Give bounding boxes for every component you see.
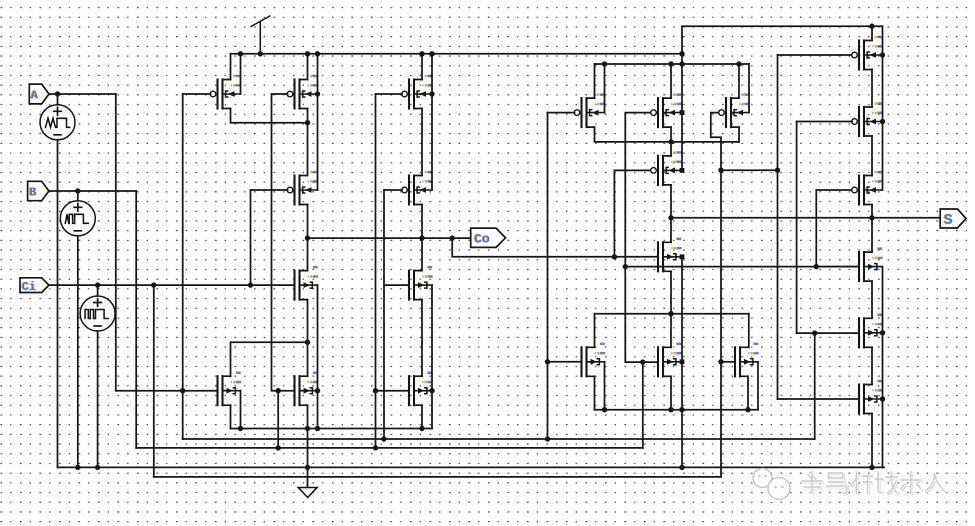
wire B down bbox=[135, 191, 137, 448]
junction bbox=[640, 359, 645, 364]
wire B to R3 R4 bbox=[625, 266, 859, 268]
wire Ci riser to M13 gate bbox=[711, 113, 721, 477]
junction bbox=[238, 51, 243, 56]
wire M17 drain up bbox=[670, 314, 672, 348]
junction bbox=[373, 445, 378, 450]
junction M14 bulk bbox=[680, 168, 685, 173]
transistor M21 gate B (pmos) bbox=[852, 171, 883, 205]
wire A to M16 gate bbox=[548, 361, 582, 363]
junction bbox=[668, 61, 673, 66]
junction bbox=[545, 359, 550, 364]
junction bbox=[373, 388, 378, 393]
wire Ci to R6 gate bbox=[778, 398, 860, 400]
wire M4 source to M5 drain bbox=[421, 109, 423, 176]
transistor M17 gate B (nmos) bbox=[658, 343, 682, 377]
svg-text:Co: Co bbox=[474, 232, 490, 247]
wire right NMOS bulk drop bbox=[882, 267, 884, 468]
wire M16 drain up bbox=[594, 314, 596, 348]
wire M12 source to M14 drain bbox=[670, 127, 672, 156]
wire Ci to M18 gate bbox=[721, 361, 735, 363]
wire left NMOS source rail bbox=[231, 428, 433, 430]
watermark text bbox=[802, 472, 946, 494]
wire Ci riser right bbox=[777, 55, 779, 399]
wire A riser right bbox=[796, 122, 798, 334]
wire B to R4 gate bbox=[816, 266, 859, 268]
wire B distribution bbox=[136, 447, 643, 449]
wire M7 source to M8 drain bbox=[307, 300, 309, 377]
svg-text:S: S bbox=[944, 212, 953, 229]
transistor M7 gate Ci (nmos) bbox=[295, 266, 319, 300]
junction bbox=[602, 61, 607, 66]
junction bbox=[745, 407, 750, 412]
wire M13 source down bbox=[738, 127, 740, 142]
junction bbox=[880, 52, 885, 57]
wire B to R3 gate bbox=[816, 190, 852, 267]
junction bbox=[276, 445, 281, 450]
port Co bbox=[471, 228, 506, 247]
junction bbox=[55, 91, 60, 96]
transistor M5 gate A (pmos) bbox=[402, 171, 433, 205]
transistor M13 gate Ci (pmos) bbox=[719, 93, 750, 127]
voltage source VA bbox=[40, 105, 75, 140]
junction bbox=[718, 168, 723, 173]
wire B to VB bbox=[77, 191, 79, 201]
transistor M22 gate B (nmos) bbox=[859, 247, 883, 281]
junction bbox=[668, 407, 673, 412]
wire ground net bbox=[58, 466, 885, 468]
port A bbox=[29, 84, 49, 104]
junction bbox=[668, 311, 673, 316]
junction bbox=[679, 465, 684, 470]
wire M15 source down bbox=[670, 271, 672, 313]
wire A gate riser bbox=[182, 94, 184, 439]
transistor M15 gate Co (nmos) bbox=[658, 238, 682, 272]
wire M6 bulk to rail bbox=[240, 391, 242, 429]
wire M8 source to rail bbox=[307, 405, 309, 428]
wire Co feedback to M15 gate bbox=[452, 238, 658, 257]
junction bbox=[880, 396, 885, 401]
junction bbox=[238, 426, 243, 431]
wire Ci down bbox=[153, 285, 155, 477]
wire A to VA bbox=[57, 94, 59, 105]
junction bbox=[429, 91, 434, 96]
junction bbox=[668, 139, 673, 144]
wire M1 bulk to VDD bbox=[240, 54, 242, 94]
transistor M10 gate B (nmos) bbox=[409, 372, 433, 406]
wire M4 drain to VDD bbox=[421, 54, 423, 80]
junction bbox=[679, 51, 684, 56]
junction bbox=[315, 426, 320, 431]
wire Ci to M3 gate bbox=[251, 190, 288, 285]
wire M11 bulk up bbox=[604, 64, 606, 113]
wire A to R2 gate bbox=[797, 121, 852, 123]
wire VA to ground bbox=[57, 140, 59, 468]
transistor M3 gate Ci (pmos) bbox=[287, 171, 318, 205]
junction bbox=[75, 465, 80, 470]
transistor M18 gate Ci (nmos) bbox=[735, 343, 759, 377]
wire A down bbox=[115, 94, 117, 391]
wire M7 M8 bulk to rail bbox=[317, 285, 319, 428]
wire mid NMOS source rail bbox=[595, 409, 759, 411]
wire A from port bbox=[49, 93, 116, 95]
wire mid NMOS drain bus bbox=[595, 313, 749, 315]
junction bbox=[869, 24, 874, 29]
wire M17 source down bbox=[670, 376, 672, 409]
svg-text:B: B bbox=[29, 186, 36, 200]
wire right PMOS bulk riser bbox=[882, 26, 884, 190]
wire A to M5 gate bbox=[384, 189, 402, 191]
port Ci bbox=[20, 278, 49, 294]
transistor M4 gate B (pmos) bbox=[402, 75, 433, 109]
wire mid VDD riser bbox=[681, 26, 683, 170]
wire M6 source to rail bbox=[230, 405, 232, 428]
junction bbox=[419, 51, 424, 56]
svg-text:A: A bbox=[31, 89, 39, 103]
wire M3 source to M7 drain bbox=[307, 205, 309, 271]
wire M11 drain up bbox=[594, 64, 596, 98]
wire mid PMOS drain bus bbox=[595, 63, 750, 65]
wire M9 M10 bulk to rail bbox=[431, 285, 433, 428]
junction M15 bulk bbox=[680, 254, 685, 259]
transistor M11 gate A (pmos) bbox=[574, 93, 605, 127]
junction bbox=[623, 264, 628, 269]
ground bbox=[298, 488, 317, 498]
wire M2 drain to VDD bbox=[307, 54, 309, 80]
junction bbox=[880, 330, 885, 335]
junction bbox=[305, 120, 310, 125]
junction bbox=[718, 359, 723, 364]
junction bbox=[736, 61, 741, 66]
junction bbox=[305, 426, 310, 431]
transistor M14 gate Co (pmos) bbox=[651, 151, 682, 185]
wire B to M17 gate bbox=[643, 361, 658, 363]
junction bbox=[429, 51, 434, 56]
junction bbox=[450, 235, 455, 240]
transistor M23 gate A (nmos) bbox=[859, 314, 883, 348]
wire B to M8 gate bbox=[278, 390, 294, 392]
wire M14 source to S node bbox=[670, 185, 672, 218]
wire Co node bbox=[308, 237, 471, 239]
wire M15 drain up bbox=[670, 218, 672, 243]
wire M12 drain up bbox=[670, 64, 672, 98]
wire B from port bbox=[49, 190, 136, 192]
wire M16 bulk down bbox=[604, 362, 606, 410]
transistor M19 gate Ci (pmos) bbox=[852, 36, 883, 70]
junction bbox=[315, 51, 320, 56]
wire top VDD link bbox=[682, 25, 882, 27]
junction bbox=[315, 388, 320, 393]
wire A to M1 gate bbox=[183, 93, 211, 95]
junction bbox=[668, 215, 673, 220]
wire Ci distribution bbox=[154, 476, 721, 478]
junction bbox=[775, 168, 780, 173]
wire M4 M5 bulk to VDD bbox=[431, 54, 433, 190]
wire B to M4 gate bbox=[376, 93, 403, 95]
junction bbox=[679, 407, 684, 412]
wire M18 bulk down bbox=[757, 362, 759, 410]
junction bbox=[429, 388, 434, 393]
junction bbox=[381, 436, 386, 441]
wire S node bbox=[671, 217, 940, 219]
wire M18 source down bbox=[747, 376, 749, 409]
junction bbox=[95, 465, 100, 470]
wire VDD rail bbox=[231, 53, 683, 55]
transistor M20 gate A (pmos) bbox=[852, 102, 883, 136]
junction bbox=[276, 388, 281, 393]
wire M6 drain to node bbox=[231, 342, 308, 376]
junction bbox=[75, 188, 80, 193]
junction bbox=[880, 119, 885, 124]
junction bbox=[869, 465, 874, 470]
junction bbox=[315, 91, 320, 96]
junction bbox=[95, 282, 100, 287]
wire A to R5 gate bbox=[797, 332, 859, 334]
transistor M8 gate B (nmos) bbox=[295, 372, 319, 406]
wire M1 source to column2 bbox=[231, 109, 308, 123]
wire rail to ground bbox=[307, 429, 309, 488]
transistor M2 gate B (pmos) bbox=[287, 75, 318, 109]
transistor M9 gate A (nmos) bbox=[409, 266, 433, 300]
junction bbox=[812, 330, 817, 335]
junction bbox=[419, 235, 424, 240]
junction bbox=[679, 61, 684, 66]
junction bbox=[305, 465, 310, 470]
junction bbox=[814, 264, 819, 269]
wire B to M2 gate bbox=[272, 94, 288, 391]
wire M13 drain up bbox=[738, 64, 740, 98]
wire A distribution bbox=[183, 438, 815, 440]
wire VCi to ground bbox=[97, 331, 99, 467]
wire M11 source link bbox=[595, 127, 740, 142]
junction bbox=[419, 426, 424, 431]
transistor M16 gate A (nmos) bbox=[582, 343, 606, 377]
wire A to M9 gate bbox=[384, 284, 409, 286]
wire Ci to R1 gate bbox=[778, 54, 853, 56]
wire A feed to R2 R5 bbox=[814, 333, 816, 439]
transistor M24 gate Ci (nmos) bbox=[859, 380, 883, 414]
junction bbox=[151, 282, 156, 287]
wire M2 M3 bulk to VDD bbox=[317, 54, 319, 190]
voltage source VCi bbox=[80, 296, 115, 331]
junction bbox=[305, 340, 310, 345]
wire M1 drain to VDD bbox=[230, 54, 232, 80]
wire M5 source to M9 drain bbox=[421, 205, 423, 271]
wire VB to ground bbox=[77, 236, 79, 468]
transistor M12 gate B (pmos) bbox=[651, 93, 682, 127]
transistor M6 gate A (nmos) bbox=[218, 372, 242, 406]
watermark logo bbox=[753, 469, 790, 503]
wire M13 bulk up bbox=[748, 64, 750, 113]
wire M18 drain up bbox=[748, 314, 750, 348]
port S bbox=[940, 209, 966, 229]
transistor M1 gate A (pmos) bbox=[210, 75, 241, 109]
wire Ci from port to M7 gate bbox=[49, 284, 295, 286]
wire Ci to R1 R6 bbox=[721, 169, 778, 171]
junction bbox=[545, 436, 550, 441]
wire A riser mid bbox=[547, 113, 549, 439]
junction bbox=[305, 235, 310, 240]
junction M17 bulk bbox=[680, 359, 685, 364]
junction bbox=[869, 215, 874, 220]
voltage source VB bbox=[60, 201, 95, 236]
wire M10 source to rail bbox=[421, 405, 423, 428]
wire A to M11 gate bbox=[548, 112, 575, 114]
wire B riser column3 bbox=[375, 94, 377, 448]
svg-text:Ci: Ci bbox=[22, 280, 36, 294]
wire right column chain bbox=[871, 26, 873, 467]
wire B to M10 gate bbox=[376, 390, 410, 392]
wire M2 source to M3 drain bbox=[307, 109, 309, 176]
junction bbox=[180, 388, 185, 393]
wire A riser to M5 M9 bbox=[383, 190, 385, 439]
junction bbox=[602, 407, 607, 412]
wire Co to M14 gate bbox=[614, 170, 651, 256]
junction bbox=[305, 51, 310, 56]
wire A to M6 gate bbox=[116, 390, 218, 392]
vdd supply symbol bbox=[251, 16, 270, 54]
wire M16 source down bbox=[594, 376, 596, 409]
port B bbox=[28, 181, 49, 200]
wire M9 source to M10 drain bbox=[421, 300, 423, 377]
junction bbox=[258, 51, 263, 56]
wire B riser mid block to M12 gate bbox=[625, 113, 651, 448]
wire M15 bulk to ground bbox=[681, 257, 683, 468]
junction bbox=[612, 254, 617, 259]
junction bbox=[248, 282, 253, 287]
wire Ci to VCi bbox=[97, 285, 99, 296]
wire B riser column2 bbox=[277, 391, 279, 448]
junction M12 bulk bbox=[680, 110, 685, 115]
